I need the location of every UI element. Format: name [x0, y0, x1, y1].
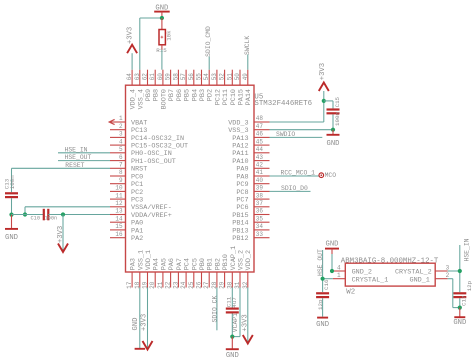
- U5 pin 60 (BOOT0): [157, 70, 169, 110]
- svg-text:24: 24: [180, 281, 187, 289]
- capacitor C15 100n decoupling: [327, 110, 340, 114]
- net label SDIO_D0 on PC8: [270, 185, 311, 192]
- svg-text:HSE_OUT: HSE_OUT: [65, 154, 92, 161]
- node MCO flag: [319, 172, 336, 179]
- junction HSE_OUT node: [321, 277, 325, 281]
- svg-text:42: 42: [256, 162, 264, 169]
- W2 pin 1 CRYSTAL_1: [333, 272, 388, 284]
- svg-text:10: 10: [115, 185, 123, 192]
- svg-text:3: 3: [446, 264, 450, 271]
- wire C10 to VDDA/VREF+ pin 13: [48, 214, 110, 216]
- svg-text:59: 59: [165, 73, 172, 81]
- junction right gnd node: [458, 306, 462, 310]
- supply +3V3 below VDD_2 pin 32: [241, 288, 252, 344]
- svg-text:PB13: PB13: [232, 227, 248, 235]
- W2 pin 2 GND_1: [409, 272, 449, 284]
- supply +3V3 above VDD_4: [126, 27, 137, 70]
- U5 pin 20 (PA4): [149, 258, 161, 289]
- svg-text:23: 23: [172, 281, 179, 289]
- svg-text:2: 2: [119, 123, 123, 130]
- svg-text:GND: GND: [316, 321, 329, 329]
- U5 pin 34 (PB13): [232, 223, 269, 235]
- net label HSE_OUT vertical: [317, 249, 324, 292]
- svg-text:45: 45: [256, 138, 264, 145]
- wire CRYSTAL_1 to HSE_OUT column: [323, 278, 333, 280]
- junction reset-gnd node: [9, 213, 13, 217]
- svg-text:W2: W2: [346, 289, 355, 297]
- svg-text:29: 29: [219, 281, 226, 289]
- junction VSSA node: [23, 212, 27, 216]
- U5 pin 41 (PA8): [236, 169, 269, 181]
- supply +3V3 right of U5: [319, 63, 329, 101]
- wire C17 to gnd node: [459, 298, 461, 307]
- junction 3V3 node: [322, 99, 326, 103]
- U5 pin 15 (PA1): [110, 223, 143, 235]
- wire CRYSTAL_2 to HSE_IN column: [448, 270, 460, 272]
- wire VSS_1 pin 18 to ground: [132, 288, 140, 349]
- U5 name label: [254, 93, 263, 101]
- svg-text:100n: 100n: [9, 175, 16, 189]
- supply +3V3 below VDD_1 pin 19: [140, 288, 152, 350]
- U5 pin 51 (PC10): [226, 70, 238, 106]
- net label RESET on NRST: [12, 162, 111, 169]
- svg-text:PA14: PA14: [245, 89, 253, 105]
- svg-text:57: 57: [180, 73, 187, 81]
- U5 pin 14 (PA0): [110, 215, 143, 227]
- svg-text:50: 50: [234, 73, 241, 81]
- svg-text:12: 12: [115, 200, 123, 207]
- C13 name: [4, 178, 11, 189]
- U5 pin 53 (PC12): [211, 70, 223, 106]
- junction at W2 pin 4: [330, 269, 334, 273]
- svg-text:20: 20: [149, 281, 156, 289]
- svg-text:56: 56: [188, 73, 195, 81]
- capacitor C16 12p load cap left: [316, 293, 329, 297]
- U5 pin 1 (VBAT): [110, 115, 147, 127]
- U5 pin 30 (VCAP_1): [226, 246, 238, 289]
- U5 pin 58 (PB6): [172, 70, 184, 102]
- U5 pin 12 (VSSA/VREF-): [110, 200, 172, 212]
- ground GND above BOOT0 pull-down: [154, 4, 170, 18]
- U5 pin 36 (PB15): [232, 208, 269, 220]
- U5 pin 4 (PC15-OSC32_OUT): [110, 138, 188, 150]
- C11 name: [226, 296, 233, 307]
- wire resistor to BOOT0 pin: [161, 50, 163, 70]
- U5 pin 59 (PB7): [165, 70, 177, 102]
- svg-text:4u7: 4u7: [231, 297, 238, 308]
- svg-text:51: 51: [226, 73, 233, 81]
- resistor R15 10k BOOT0 pull-down: [159, 18, 165, 50]
- svg-text:17: 17: [126, 281, 133, 289]
- pin 1 VBAT stub arrow: [109, 119, 114, 124]
- svg-text:1: 1: [337, 272, 341, 279]
- svg-text:MCO: MCO: [325, 172, 337, 179]
- wire VSS_3 pin 47 to GND node: [270, 129, 334, 131]
- U5 pin 64 (VDD_4): [126, 70, 138, 110]
- U5 pin 23 (PA7): [172, 258, 184, 289]
- svg-text:40: 40: [256, 177, 264, 184]
- net label HSE_IN on PH0-OSC_IN: [58, 146, 110, 153]
- C16 value 12p: [317, 299, 324, 310]
- svg-text:CRYSTAL_1: CRYSTAL_1: [352, 276, 389, 284]
- U5 pin 24 (PC4): [180, 258, 192, 289]
- U5 pin 31 (VSS_2): [234, 250, 246, 289]
- svg-text:12p: 12p: [317, 299, 324, 310]
- svg-text:C10: C10: [31, 216, 41, 222]
- junction GND node at resistor top: [160, 16, 164, 20]
- svg-text:11: 11: [115, 192, 123, 199]
- svg-text:RESET: RESET: [65, 162, 84, 169]
- U5 pin 39 (PC8): [236, 185, 269, 197]
- U5 pin 25 (PC5): [188, 258, 200, 289]
- C10 name: [31, 216, 41, 222]
- svg-text:GND: GND: [226, 352, 239, 360]
- svg-text:7: 7: [119, 162, 123, 169]
- svg-text:PA1: PA1: [131, 227, 143, 235]
- U5 pin 28 (PB2): [211, 258, 223, 289]
- U5 value label STM32F446RET6: [254, 100, 312, 108]
- U5 pin 13 (VDDA/VREF+): [110, 208, 172, 220]
- wire GND_1 to gnd node: [448, 279, 460, 308]
- ground GND below C17: [453, 308, 466, 327]
- svg-text:4: 4: [119, 138, 123, 145]
- U5 pin 43 (PA10): [232, 154, 269, 166]
- U5 pin 2 (PC13): [110, 123, 147, 135]
- C16 name: [323, 279, 330, 290]
- svg-text:62: 62: [142, 73, 149, 81]
- svg-text:6: 6: [119, 154, 123, 161]
- svg-text:PH0-OSC_IN: PH0-OSC_IN: [131, 150, 172, 158]
- svg-text:STM32F446RET6: STM32F446RET6: [254, 100, 312, 108]
- W2 name: [346, 289, 355, 297]
- C15 value 100n: [334, 112, 341, 126]
- svg-text:+3V3: +3V3: [57, 226, 65, 243]
- op-amp U1 main microcontroller U5 STM32F446RET6 body: [126, 85, 255, 272]
- svg-text:GND: GND: [5, 234, 18, 242]
- svg-text:PA2: PA2: [131, 235, 143, 243]
- svg-text:44: 44: [256, 146, 264, 153]
- svg-text:13: 13: [115, 208, 123, 215]
- svg-text:+3V3: +3V3: [241, 314, 249, 331]
- svg-text:12p: 12p: [466, 280, 473, 291]
- svg-text:100n: 100n: [334, 112, 341, 126]
- U5 pin 61 (PB8): [149, 70, 161, 102]
- C11 value 4u7: [231, 297, 238, 308]
- svg-text:63: 63: [134, 73, 141, 81]
- U5 pin 44 (PA11): [232, 146, 269, 158]
- R15 name: [156, 47, 167, 54]
- wire +3V3 to VDD_3 pin 48: [270, 101, 324, 122]
- capacitor C13 100n on reset: [5, 193, 18, 197]
- svg-text:27: 27: [203, 281, 210, 289]
- W2 pin 4 GND_2: [332, 264, 372, 276]
- svg-text:14: 14: [115, 215, 123, 222]
- U5 pin 27 (PB1): [203, 258, 215, 289]
- net label SDIO_CMD on PD2: [205, 26, 212, 70]
- svg-text:4: 4: [337, 264, 341, 271]
- svg-text:RCC_MCO_1: RCC_MCO_1: [281, 170, 316, 177]
- svg-text:VCAP1: VCAP1: [232, 313, 239, 332]
- svg-text:+3V3: +3V3: [126, 27, 134, 44]
- svg-text:25: 25: [188, 281, 195, 289]
- svg-text:60: 60: [157, 73, 164, 81]
- U5 pin 21 (PA5): [157, 258, 169, 289]
- svg-text:100n: 100n: [45, 216, 58, 222]
- C17 value 12p: [466, 280, 473, 291]
- C10 value 100n: [45, 216, 58, 222]
- svg-text:55: 55: [196, 73, 203, 81]
- net label SDIO_CK on PB2: [211, 288, 218, 331]
- svg-text:PA11: PA11: [232, 150, 248, 158]
- U5 pin 18 (VSS_1): [134, 250, 146, 289]
- svg-text:41: 41: [256, 169, 264, 176]
- U5 pin 56 (PB4): [188, 70, 200, 102]
- U5 pin 47 (VSS_3): [228, 123, 269, 135]
- svg-text:22: 22: [165, 281, 172, 289]
- U5 pin 46 (PA13): [232, 131, 269, 143]
- U5 pin 10 (PC2): [110, 185, 143, 197]
- ground GND left: [5, 215, 18, 242]
- capacitor C11 4u7 on VCAP_1: [226, 309, 239, 313]
- svg-text:SDIO_CK: SDIO_CK: [211, 295, 218, 322]
- svg-text:SDIO_D0: SDIO_D0: [281, 185, 308, 192]
- wire VSS_2 pin 31 to gnd node: [232, 288, 240, 337]
- svg-text:C17: C17: [461, 295, 468, 306]
- svg-text:HSE_OUT: HSE_OUT: [317, 249, 324, 276]
- net label HSE_OUT on PH1-OSC_OUT: [58, 154, 110, 161]
- svg-text:GND: GND: [327, 140, 340, 148]
- U5 pin 63 (VSS_4): [134, 70, 146, 110]
- U5 pin 26 (PB0): [196, 258, 208, 289]
- U5 pin 3 (PC14-OSC32_IN): [110, 131, 184, 143]
- U5 pin 52 (PC11): [219, 70, 231, 106]
- svg-text:43: 43: [256, 154, 264, 161]
- wire VSSA/VREF- pin 12: [25, 207, 110, 215]
- crystal W2 ABM3BAIG-8.000MHZ-12-T body: [345, 263, 435, 286]
- ground GND below VCAP: [226, 337, 239, 360]
- svg-text:38: 38: [256, 192, 264, 199]
- net label SWDIO on PA13: [270, 131, 323, 138]
- U5 pin 48 (VDD_3): [228, 115, 269, 127]
- svg-text:GND_1: GND_1: [409, 276, 429, 284]
- C15 name: [334, 96, 341, 107]
- svg-text:C16: C16: [323, 279, 330, 290]
- svg-text:PB12: PB12: [232, 235, 248, 243]
- U5 pin 37 (PC6): [236, 200, 269, 212]
- svg-text:48: 48: [256, 115, 264, 122]
- svg-text:+3V3: +3V3: [319, 63, 327, 80]
- U5 pin 42 (PA9): [236, 162, 269, 174]
- svg-text:9: 9: [119, 177, 123, 184]
- svg-text:34: 34: [256, 223, 264, 230]
- svg-text:SWCLK: SWCLK: [244, 36, 251, 55]
- wire GND junction to VSS_4: [140, 18, 162, 70]
- U5 pin 8 (PC0): [110, 169, 143, 181]
- svg-text:35: 35: [256, 215, 264, 222]
- wire VCAP_1 pin 30 to C11: [231, 288, 233, 308]
- svg-text:GND: GND: [326, 240, 339, 248]
- svg-text:C15: C15: [334, 96, 341, 107]
- svg-text:37: 37: [256, 200, 264, 207]
- svg-text:21: 21: [157, 281, 164, 289]
- U5 pin 49 (PA14): [242, 70, 253, 106]
- svg-text:64: 64: [126, 73, 133, 81]
- wire GND to pin 4: [331, 254, 333, 271]
- svg-text:47: 47: [256, 123, 264, 130]
- svg-text:8: 8: [119, 169, 123, 176]
- svg-text:3: 3: [119, 131, 123, 138]
- svg-text:VDD_2: VDD_2: [245, 250, 253, 270]
- wire C15 to GND node: [332, 114, 334, 129]
- capacitor C10 100n VDDA decoupling: [44, 209, 49, 221]
- U5 pin 11 (PC3): [110, 192, 143, 204]
- junction VCAP gnd node: [230, 335, 234, 339]
- svg-text:54: 54: [203, 73, 210, 81]
- svg-text:33: 33: [256, 231, 264, 238]
- net label HSE_IN vertical: [460, 238, 471, 292]
- svg-text:39: 39: [256, 185, 264, 192]
- U5 pin 19 (VDD_1): [142, 250, 154, 289]
- svg-text:PB7: PB7: [168, 89, 176, 101]
- svg-text:ABM3BAIG-8.000MHZ-12-T: ABM3BAIG-8.000MHZ-12-T: [341, 257, 439, 265]
- junction VDDA 3V3 node: [61, 212, 65, 216]
- svg-text:46: 46: [256, 131, 264, 138]
- junction HSE_IN node: [458, 269, 462, 273]
- net label RCC_MCO_1 on PA8: [270, 170, 320, 177]
- capacitor C17 12p load cap right: [453, 293, 466, 297]
- svg-text:36: 36: [256, 208, 264, 215]
- U5 pin 32 (VDD_2): [242, 250, 253, 289]
- U5 pin 33 (PB12): [232, 231, 269, 243]
- U5 pin 57 (PB5): [180, 70, 192, 102]
- svg-text:5: 5: [119, 146, 123, 153]
- svg-text:52: 52: [219, 73, 226, 81]
- U5 pin 29 (PB10): [219, 254, 231, 289]
- C17 name: [461, 295, 468, 306]
- U5 pin 35 (PB14): [232, 215, 269, 227]
- U5 pin 54 (PD2): [203, 70, 215, 102]
- svg-text:SDIO_CMD: SDIO_CMD: [205, 26, 212, 57]
- svg-text:GND: GND: [132, 318, 140, 331]
- svg-text:49: 49: [242, 73, 249, 81]
- svg-text:15: 15: [115, 223, 123, 230]
- wire RESET down to C13: [11, 168, 13, 192]
- svg-text:1: 1: [119, 115, 123, 122]
- U5 pin 40 (PC9): [236, 177, 269, 189]
- svg-text:HSE_IN: HSE_IN: [65, 146, 88, 153]
- junction GND node below C15: [331, 128, 335, 132]
- ground GND below C16: [316, 298, 329, 329]
- net label VCAP1: [232, 313, 239, 337]
- U5 pin 62 (PB9): [142, 70, 154, 102]
- wire 3V3 node to capacitor C15: [324, 101, 333, 109]
- R15 value 10k: [166, 30, 173, 41]
- svg-text:2: 2: [446, 272, 450, 279]
- U5 pin 22 (PA6): [165, 258, 177, 289]
- svg-text:61: 61: [149, 73, 156, 81]
- svg-text:HSE_IN: HSE_IN: [463, 238, 470, 261]
- svg-text:10k: 10k: [166, 30, 173, 41]
- U5 pin 7 (NRST): [110, 162, 147, 174]
- W2 pin 3 CRYSTAL_2: [395, 264, 450, 276]
- C13 value 100n: [9, 175, 16, 189]
- U5 pin 45 (PA12): [232, 138, 269, 150]
- U5 pin 38 (PC7): [236, 192, 269, 204]
- svg-text:16: 16: [115, 231, 123, 238]
- wire GND node to C10 left plate: [12, 214, 44, 216]
- U5 pin 5 (PH0-OSC_IN): [110, 146, 172, 158]
- U5 pin 9 (PC1): [110, 177, 143, 189]
- wire C13 to GND junction: [11, 198, 13, 214]
- ground GND above W2 pin 4: [325, 240, 339, 254]
- U5 pin 17 (PA3): [126, 258, 138, 289]
- svg-text:+3V3: +3V3: [140, 314, 148, 331]
- net label SWCLK on PA14: [244, 36, 251, 70]
- W2 value ABM3BAIG-8.000MHZ-12-T: [341, 257, 439, 265]
- svg-text:GND: GND: [453, 319, 466, 327]
- svg-text:SWDIO: SWDIO: [276, 131, 295, 138]
- svg-text:PA6: PA6: [168, 258, 176, 270]
- ground GND below VSS_1: [135, 348, 146, 350]
- U5 pin 16 (PA2): [110, 231, 143, 243]
- U5 pin 55 (PB3): [196, 70, 208, 102]
- ground GND below C15: [327, 130, 340, 149]
- svg-text:58: 58: [172, 73, 179, 81]
- svg-text:26: 26: [196, 281, 203, 289]
- U5 pin 50 (PA15): [234, 70, 246, 106]
- svg-text:53: 53: [211, 73, 218, 81]
- U5 pin 6 (PH1-OSC_OUT): [110, 154, 176, 166]
- supply +3V3 below VDDA: [57, 215, 68, 253]
